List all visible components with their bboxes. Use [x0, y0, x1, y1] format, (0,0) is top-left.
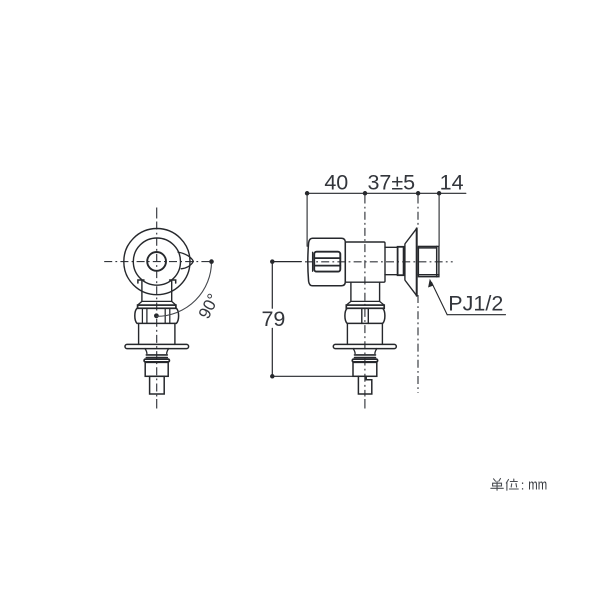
- unit note kanji 単: [491, 479, 504, 491]
- top dimension line: [307, 192, 466, 194]
- inlet pipe with notch (side view): [358, 376, 371, 394]
- svg-text::: :: [521, 477, 525, 492]
- svg-text:79: 79: [261, 307, 285, 331]
- handle grip inner lines: [314, 258, 340, 266]
- 90 degree arc: [157, 262, 212, 317]
- handle (side view): [308, 238, 346, 286]
- svg-text:14: 14: [440, 171, 464, 195]
- unit note kanji 位: [506, 479, 518, 490]
- extension line at nut face: [438, 196, 440, 246]
- inlet pipe (front view): [150, 376, 165, 394]
- PJ1/2 nut chamfer lines: [418, 246, 439, 276]
- lower neck (side view): [351, 282, 380, 301]
- 79 dim bottom stub: [272, 375, 353, 377]
- dim dot flare face: [416, 191, 421, 196]
- collar ring (front view): [144, 359, 169, 362]
- 90 degree arc start dot: [209, 259, 214, 264]
- svg-text:37±5: 37±5: [367, 171, 415, 195]
- bonnet flare trapezoid (front view): [138, 301, 176, 305]
- PJ1/2 thread nut outline: [418, 246, 439, 276]
- wall flange trumpet: [405, 228, 417, 295]
- bonnet nut body (front view): [135, 308, 179, 323]
- bonnet band (front view): [138, 305, 176, 308]
- handle hub small circle: [147, 252, 166, 271]
- body cylinder below bonnet (front view): [139, 323, 175, 344]
- right view horizontal centerline: [305, 261, 453, 263]
- svg-text:PJ1/2: PJ1/2: [448, 291, 503, 315]
- dim dot 40 left: [305, 191, 310, 196]
- 79 dim bottom dot: [270, 374, 275, 379]
- body cylinder below bonnet (side view): [347, 323, 382, 344]
- handle skirt right cap: [170, 280, 176, 283]
- bonnet nut body (side view): [345, 308, 385, 323]
- PJ1/2 leader line: [432, 283, 448, 315]
- handle grip plate: [314, 252, 340, 272]
- svg-text:mm: mm: [528, 476, 547, 493]
- neck below flange (side view): [353, 349, 377, 354]
- bonnet nut facet lines (side view): [362, 308, 369, 323]
- 90 degree arc end dot: [154, 313, 159, 318]
- 79 dim top stub: [272, 261, 301, 263]
- handle outer circle (front view): [124, 229, 190, 295]
- right view vertical centerline: [364, 399, 366, 409]
- 79 dim top dot: [270, 259, 275, 264]
- mount flange (side view): [333, 344, 396, 348]
- outlet neck (side view): [385, 247, 398, 274]
- PJ1/2 underline: [447, 314, 505, 316]
- extension centerline at flare face: [417, 196, 419, 394]
- handle grip left line: [312, 252, 314, 271]
- spout tip (front view): [178, 252, 193, 269]
- 79 dimension vertical line lower: [271, 328, 273, 376]
- handle inner circle: [133, 238, 180, 285]
- svg-text:40: 40: [324, 171, 348, 195]
- lower block (front view): [145, 362, 168, 376]
- bonnet band (side view): [346, 305, 384, 308]
- lower block (side view): [353, 362, 377, 376]
- dim dot center: [363, 191, 368, 196]
- extension line at handle end: [306, 196, 308, 247]
- mount flange (front view): [125, 344, 189, 348]
- bonnet nut facet lines (front view): [142, 308, 169, 323]
- wall flange face line: [416, 228, 418, 295]
- left view vertical centerline: [156, 208, 158, 409]
- thread ridges (front view): [146, 355, 167, 358]
- neck below flange (front view): [145, 349, 169, 354]
- dim dot nut face: [437, 191, 442, 196]
- PJ1/2 leader arrowhead: [428, 279, 433, 288]
- neck right edge (front view): [171, 280, 173, 301]
- collar ring (side view): [352, 359, 377, 362]
- outlet collar ring: [398, 247, 404, 275]
- valve body (side view): [345, 242, 385, 282]
- left view horizontal centerline: [104, 261, 211, 263]
- neck left edge (front view): [141, 280, 143, 301]
- thread ridges (side view): [355, 355, 376, 358]
- handle skirt left cap: [138, 280, 144, 283]
- 79 dimension vertical line upper: [271, 262, 273, 309]
- bonnet flare trapezoid (side view): [346, 301, 384, 305]
